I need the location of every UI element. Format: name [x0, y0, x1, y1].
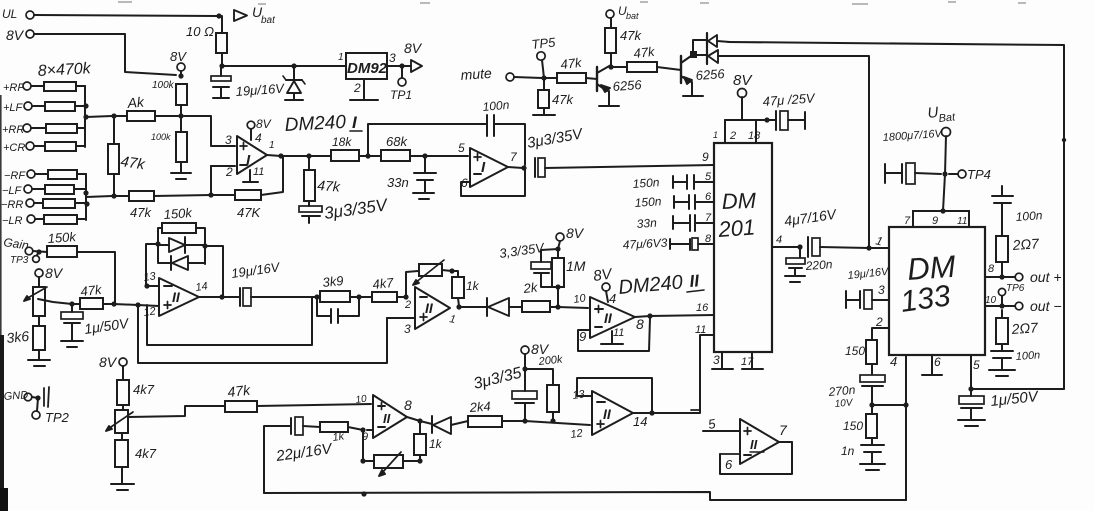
wire pin3 [387, 317, 415, 319]
junction [608, 64, 613, 69]
svg-text:47k: 47k [130, 205, 152, 220]
junction [219, 294, 224, 299]
junction [361, 491, 366, 496]
svg-text:3k9: 3k9 [322, 273, 344, 290]
label 4k7 [372, 275, 395, 292]
wire [635, 316, 650, 317]
svg-text:5: 5 [458, 141, 465, 155]
resistor 470k h [35, 215, 86, 224]
wire [525, 421, 590, 425]
diode D4 [158, 237, 205, 253]
wire [86, 196, 112, 197]
wire feedback bottom [461, 168, 525, 196]
label 3u3/35 [472, 365, 524, 393]
svg-text:1: 1 [269, 140, 275, 151]
junction [69, 301, 74, 306]
svg-text:3: 3 [389, 51, 396, 65]
svg-text:+LF: +LF [3, 102, 24, 114]
node +CR input [3, 142, 34, 154]
wire [557, 249, 559, 258]
wire [610, 65, 612, 67]
svg-text:4: 4 [776, 234, 782, 246]
svg-text:8: 8 [404, 397, 412, 413]
svg-text:150k: 150k [163, 205, 194, 222]
svg-text:11: 11 [613, 327, 624, 339]
label 1k [466, 279, 480, 293]
pin 7 [510, 150, 518, 164]
resistor 470k g [34, 199, 86, 208]
capacitor 220n [786, 247, 805, 275]
pin 13 [572, 388, 587, 402]
wire [362, 430, 364, 461]
capacitor parallel 3k9 [317, 297, 359, 323]
pin 17 [741, 352, 763, 369]
svg-text:150: 150 [845, 344, 865, 358]
svg-text:14: 14 [633, 414, 647, 429]
junction [208, 192, 213, 197]
label 150k limiter [163, 205, 194, 222]
junction [35, 395, 40, 400]
svg-text:II: II [172, 289, 181, 305]
svg-text:8V: 8V [170, 49, 187, 64]
resistor 2R7 lower [996, 310, 1008, 344]
junction [522, 418, 527, 423]
wire [558, 307, 588, 308]
label 2R7 upper [1011, 235, 1040, 253]
node TP3 [10, 252, 39, 266]
pin bump [913, 211, 969, 227]
wire [403, 460, 418, 462]
capacitor 100n feedback [487, 115, 494, 136]
node U_bat output arrow [234, 4, 276, 26]
node 8V 1M [556, 225, 585, 249]
label 3k9 [322, 273, 344, 290]
wire [205, 246, 223, 295]
wire [425, 155, 468, 157]
junction [360, 458, 365, 463]
node +RR input [2, 124, 31, 136]
svg-text:133: 133 [898, 279, 952, 319]
junction [940, 208, 945, 213]
node 8V gain pot [35, 265, 64, 281]
wire [407, 417, 420, 421]
wire [514, 77, 542, 78]
capacitor 1u/50V [959, 389, 984, 419]
junction [456, 304, 461, 309]
label 270n [827, 383, 856, 399]
junction [968, 386, 973, 391]
capacitor tp2 mark [44, 387, 49, 407]
svg-text:47k: 47k [560, 55, 584, 72]
pin 8 [404, 397, 412, 413]
wire [1001, 262, 1003, 277]
pin 6 [705, 191, 712, 203]
capacitor 47u/6V3 pin8 [670, 238, 714, 250]
label DM240 II [618, 271, 704, 299]
svg-text:10 Ω: 10 Ω [186, 24, 214, 39]
node UL input terminal [2, 7, 34, 21]
resistor 150 lower [866, 405, 877, 438]
svg-text:Ak: Ak [126, 94, 146, 112]
ground [958, 420, 985, 426]
svg-text:4: 4 [890, 354, 897, 369]
node GND terminal [3, 389, 31, 403]
junction [111, 113, 116, 118]
resistor 4k7 stage2 [359, 292, 404, 302]
junction [178, 73, 183, 78]
svg-text:8V: 8V [99, 354, 118, 370]
svg-text:10: 10 [985, 295, 997, 306]
node out- [985, 298, 1062, 314]
svg-text:4: 4 [609, 291, 616, 306]
pin 9 [702, 150, 709, 164]
wire [657, 67, 681, 70]
junction [83, 190, 88, 195]
wire [77, 252, 115, 303]
svg-text:33n: 33n [636, 216, 657, 231]
svg-text:8V: 8V [733, 72, 753, 89]
junction [903, 402, 908, 407]
svg-text:10: 10 [355, 393, 368, 406]
svg-text:150k: 150k [47, 229, 78, 246]
resistor 47k gain [72, 298, 103, 309]
svg-text:47k: 47k [317, 177, 342, 195]
svg-text:3: 3 [713, 353, 720, 367]
resistor 1k fb [414, 423, 426, 461]
capacitor 100n lower [991, 344, 1013, 358]
svg-text:2Ω7: 2Ω7 [1010, 319, 1039, 337]
wire feedback DM240II [578, 318, 650, 351]
capacitor 3u3/35 lower [512, 369, 537, 419]
node U_Bat [927, 104, 957, 174]
resistor 1M [552, 258, 564, 287]
svg-text:8: 8 [988, 263, 995, 275]
label 6256 [695, 66, 726, 83]
junction [144, 283, 149, 288]
svg-text:47k: 47k [227, 382, 252, 400]
label 10 Ohm [186, 24, 214, 39]
svg-text:1n: 1n [841, 444, 855, 458]
svg-text:2: 2 [404, 299, 411, 311]
wire [557, 287, 559, 307]
wire [550, 306, 556, 308]
pin 8 [988, 263, 995, 275]
label 1k [332, 430, 346, 444]
label 47k [633, 44, 657, 61]
label 100k [152, 80, 175, 91]
label 1k [429, 437, 443, 451]
svg-text:1: 1 [713, 130, 718, 140]
pin 9 [932, 215, 938, 227]
wire [146, 244, 158, 284]
junction [356, 294, 361, 299]
node 8V supply op-amp I [170, 49, 187, 71]
junction [449, 268, 454, 273]
ground [171, 162, 191, 179]
svg-text:47k: 47k [633, 44, 657, 61]
junction [219, 63, 224, 68]
svg-text:TP4: TP4 [967, 167, 991, 182]
label 47k [620, 28, 642, 43]
svg-text:8V: 8V [566, 225, 585, 241]
label 47k [560, 55, 584, 72]
svg-text:7: 7 [705, 212, 712, 224]
svg-text:DM: DM [721, 188, 757, 214]
svg-text:1k: 1k [429, 437, 443, 451]
capacitor 22u/16V [291, 417, 320, 435]
junction [365, 153, 370, 158]
resistor 47k lower [225, 401, 257, 412]
resistor 470k d [34, 142, 85, 151]
ground [111, 467, 134, 490]
pin 12 [570, 427, 584, 441]
svg-text:100k: 100k [151, 132, 171, 142]
capacitor 1800uF/16V [885, 163, 941, 184]
pin 4 [890, 354, 897, 369]
pin 4 [251, 129, 262, 145]
svg-text:out +: out + [1030, 269, 1062, 285]
capacitor 33n pin7 [673, 215, 714, 231]
label 201 [717, 214, 756, 242]
svg-text:4k7: 4k7 [135, 446, 157, 461]
capacitor 19u/16V pin3 [846, 290, 889, 309]
junction [649, 410, 654, 415]
resistor 100k pull-up [176, 84, 187, 105]
junction [555, 246, 560, 251]
pin 8 [705, 233, 712, 245]
pin 6 [461, 176, 468, 190]
wire [309, 155, 331, 157]
wire right edge net [728, 42, 1064, 389]
svg-text:3: 3 [878, 283, 885, 297]
svg-text:14: 14 [195, 280, 209, 294]
label 19u/16V [230, 259, 281, 281]
svg-text:II: II [750, 437, 758, 452]
pin 1 [874, 233, 884, 248]
capacitor 19u/16V [211, 66, 231, 98]
junction [306, 153, 311, 158]
wire [180, 105, 182, 116]
wire [211, 165, 235, 167]
wire [693, 40, 706, 51]
label 1n [841, 444, 855, 458]
wire wiper [38, 299, 72, 304]
svg-text:11: 11 [253, 166, 264, 178]
junction [797, 244, 802, 249]
node -RR input [1, 199, 34, 211]
label 2k4 [468, 399, 491, 415]
resistor 150k gain [47, 246, 77, 257]
capacitor 1n [861, 438, 884, 452]
IC U4 DM133 [889, 227, 985, 355]
wire [350, 296, 359, 298]
node TP2 [32, 398, 70, 425]
IC U2 DM92 [346, 53, 388, 79]
resistor 2R7 upper [996, 236, 1008, 262]
wire [367, 429, 373, 431]
node 8V output arrow [402, 40, 423, 72]
svg-text:II: II [603, 406, 612, 422]
pin 11 label [695, 324, 706, 336]
diode D1 [707, 33, 730, 48]
wire [869, 247, 889, 249]
junction [555, 304, 560, 309]
junction [521, 165, 526, 170]
wire [872, 328, 889, 340]
pin 2 [404, 299, 411, 311]
junction [84, 201, 89, 206]
svg-text:mute: mute [460, 65, 492, 83]
wire [363, 460, 374, 462]
svg-text:100n: 100n [1015, 208, 1043, 224]
svg-text:TP3: TP3 [10, 255, 29, 266]
pin 3 [225, 133, 232, 147]
resistor 3k6 [33, 316, 45, 350]
wire box spare [720, 442, 792, 474]
label DM [721, 188, 757, 214]
wire [221, 53, 223, 66]
svg-text:2: 2 [353, 81, 361, 95]
pin 5 [973, 358, 980, 372]
node +LF input [3, 102, 32, 114]
svg-text:10V: 10V [834, 397, 854, 410]
pin 3 [712, 352, 733, 369]
svg-text:II: II [383, 411, 391, 426]
svg-text:8×470k: 8×470k [37, 60, 92, 80]
wire [210, 166, 212, 195]
resistor 10R [216, 33, 227, 53]
svg-text:47K: 47K [237, 205, 261, 220]
pin 2 [225, 165, 233, 179]
label 6256 [612, 77, 643, 94]
wire [495, 124, 525, 165]
junction [111, 193, 116, 198]
label 3k6 [6, 328, 30, 346]
ground [989, 358, 1015, 376]
node out+ [985, 269, 1062, 285]
junction [647, 313, 652, 318]
svg-text:2: 2 [729, 130, 736, 142]
node 8V terminal [6, 27, 34, 43]
pin 5 [705, 171, 712, 183]
wire [257, 404, 371, 406]
label 47K [237, 205, 261, 220]
junction [403, 294, 408, 299]
svg-text:47k: 47k [620, 28, 642, 43]
pin 4 [772, 234, 800, 247]
op-amp spare [740, 419, 779, 464]
junction [202, 243, 207, 248]
node +RF input [3, 82, 31, 94]
capacitor 47u/25V [767, 111, 805, 130]
junction [278, 153, 283, 158]
wire limiter right [196, 228, 205, 264]
wire [544, 77, 557, 79]
svg-text:bat: bat [626, 11, 639, 21]
label 1u/50V [990, 388, 1041, 410]
svg-text:8: 8 [636, 316, 644, 332]
ground [533, 114, 555, 116]
junction square [690, 51, 697, 58]
svg-text:220n: 220n [804, 257, 833, 273]
ground [28, 350, 50, 366]
pin 2 [350, 79, 378, 100]
wire [502, 420, 523, 422]
pin 6 [725, 457, 733, 472]
op-amp II b [415, 287, 450, 329]
resistor 470k a [31, 82, 85, 91]
diode D7 [420, 416, 468, 434]
label 18k [332, 135, 352, 149]
ground [243, 170, 258, 182]
wire [720, 453, 740, 455]
wire [38, 277, 40, 287]
svg-text:8V: 8V [256, 117, 272, 131]
node 8V lower [99, 354, 127, 380]
pin 5 [458, 141, 465, 155]
svg-text:TP6: TP6 [1006, 283, 1025, 294]
label 33n [387, 175, 409, 190]
node -LF input [2, 185, 32, 197]
resistor 47k feedback I [235, 190, 261, 200]
ground pin6 [922, 355, 942, 375]
svg-text:8V: 8V [404, 40, 423, 56]
pin 8 [636, 316, 644, 332]
label 3u3/35V [526, 125, 586, 152]
junction [999, 274, 1004, 279]
wire [525, 369, 553, 385]
wire feedback IIIb [577, 378, 652, 412]
label 33n [636, 216, 657, 231]
svg-text:3: 3 [225, 133, 232, 147]
svg-text:2k4: 2k4 [468, 399, 491, 415]
wire [281, 155, 309, 157]
pin 10 [985, 295, 997, 306]
wire feedback box IIa [147, 298, 312, 345]
svg-text:8V: 8V [6, 27, 25, 43]
svg-text:3: 3 [404, 322, 411, 336]
pin 10 [355, 393, 368, 406]
svg-text:TP2: TP2 [45, 410, 70, 425]
svg-text:2Ω7: 2Ω7 [1011, 235, 1040, 253]
svg-text:out −: out − [1030, 298, 1062, 314]
label 4k7 [133, 382, 155, 397]
resistor 47k pulldown [538, 78, 549, 114]
wire [184, 116, 235, 146]
svg-text:6: 6 [725, 457, 733, 472]
capacitor 150n pin6 [674, 195, 714, 209]
pin 5 [707, 416, 717, 432]
svg-text:DM92: DM92 [347, 60, 388, 77]
wire [650, 315, 714, 316]
label 200k [537, 354, 563, 369]
wire [147, 285, 159, 287]
node 8V supply DM201 [733, 72, 753, 120]
wire [725, 119, 767, 121]
svg-text:9: 9 [702, 150, 709, 164]
node TP4 [949, 167, 991, 182]
pin 7 [904, 215, 911, 227]
svg-text:UL: UL [2, 7, 17, 21]
pin 11 [957, 216, 967, 227]
pin 9 [362, 431, 368, 443]
node TP5 [531, 34, 557, 78]
junction [36, 249, 41, 254]
diode zener D3 [283, 66, 305, 100]
capacitor 1u/50V gain [61, 304, 83, 340]
resistor 47k lower-left [129, 191, 154, 201]
wire wiper lower [128, 406, 225, 417]
